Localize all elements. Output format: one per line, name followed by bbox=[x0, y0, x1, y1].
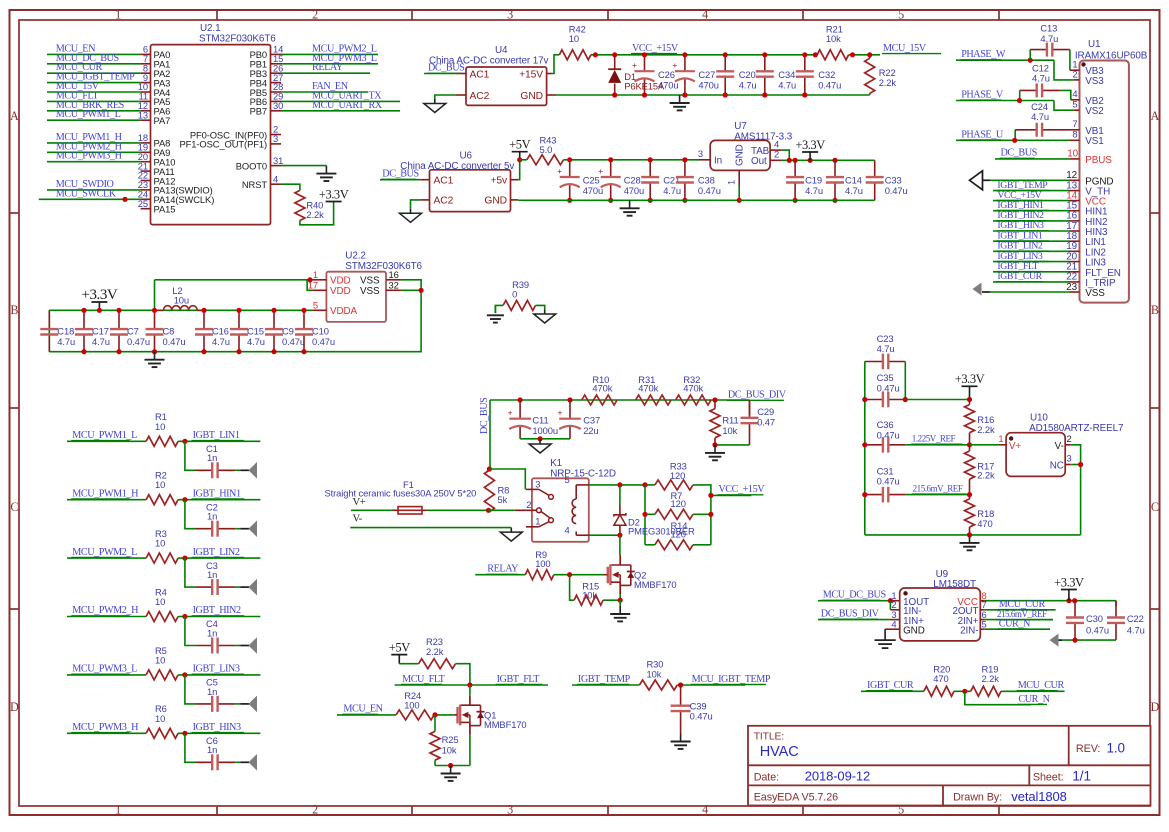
svg-text:U7: U7 bbox=[734, 121, 746, 132]
svg-text:0.47u: 0.47u bbox=[282, 336, 305, 347]
svg-text:4: 4 bbox=[891, 618, 896, 629]
svg-text:U6: U6 bbox=[460, 151, 473, 162]
svg-text:HVAC: HVAC bbox=[760, 744, 799, 760]
svg-text:PMEG3010BER: PMEG3010BER bbox=[628, 526, 695, 537]
svg-text:DC_BUS: DC_BUS bbox=[428, 63, 465, 74]
svg-text:MCU_PWM3_L: MCU_PWM3_L bbox=[72, 664, 137, 675]
svg-text:+3.3V: +3.3V bbox=[82, 287, 118, 303]
svg-text:IGBT_HIN3: IGBT_HIN3 bbox=[193, 722, 241, 733]
svg-text:4: 4 bbox=[273, 173, 278, 184]
svg-text:4.7u: 4.7u bbox=[57, 336, 75, 347]
svg-text:13: 13 bbox=[138, 109, 148, 120]
svg-text:470: 470 bbox=[977, 518, 992, 529]
svg-text:0.47: 0.47 bbox=[757, 417, 775, 428]
svg-text:AC2: AC2 bbox=[434, 196, 454, 207]
svg-text:C37: C37 bbox=[583, 415, 600, 426]
svg-text:C: C bbox=[1151, 500, 1159, 514]
svg-text:IGBT_CUR: IGBT_CUR bbox=[867, 680, 914, 691]
svg-text:+: + bbox=[632, 60, 637, 70]
svg-text:120: 120 bbox=[670, 470, 685, 481]
svg-text:AC1: AC1 bbox=[470, 69, 490, 80]
svg-text:0: 0 bbox=[512, 289, 517, 300]
svg-text:C13: C13 bbox=[1040, 23, 1057, 34]
svg-text:GND: GND bbox=[903, 625, 925, 636]
svg-text:100: 100 bbox=[535, 558, 550, 569]
svg-text:IGBT_TEMP: IGBT_TEMP bbox=[578, 674, 631, 685]
svg-text:10k: 10k bbox=[826, 33, 841, 44]
svg-text:+5v: +5v bbox=[490, 176, 508, 187]
svg-text:AC1: AC1 bbox=[434, 176, 454, 187]
svg-text:1n: 1n bbox=[207, 569, 217, 580]
svg-text:0.47u: 0.47u bbox=[127, 336, 150, 347]
svg-text:NC: NC bbox=[1050, 460, 1064, 471]
svg-text:MCU_PWM1_L: MCU_PWM1_L bbox=[56, 109, 121, 120]
svg-text:IGBT_LIN2: IGBT_LIN2 bbox=[193, 547, 240, 558]
svg-text:+15V: +15V bbox=[519, 69, 543, 80]
svg-text:120: 120 bbox=[671, 498, 686, 509]
svg-text:7: 7 bbox=[1072, 118, 1077, 129]
svg-text:1n: 1n bbox=[207, 452, 217, 463]
svg-text:C15: C15 bbox=[247, 326, 264, 337]
svg-text:10: 10 bbox=[155, 538, 165, 549]
svg-text:VDD: VDD bbox=[330, 286, 351, 297]
svg-text:4.7u: 4.7u bbox=[805, 185, 823, 196]
svg-text:Drawn By:: Drawn By: bbox=[953, 791, 1002, 803]
svg-text:4.7u: 4.7u bbox=[1040, 33, 1058, 44]
svg-text:4.7u: 4.7u bbox=[739, 79, 757, 90]
svg-text:3: 3 bbox=[535, 478, 540, 489]
svg-text:470u: 470u bbox=[583, 185, 603, 196]
svg-text:0.47u: 0.47u bbox=[312, 336, 335, 347]
svg-text:IGBT_LIN3: IGBT_LIN3 bbox=[193, 664, 240, 675]
svg-text:+: + bbox=[558, 408, 563, 418]
svg-text:VSS: VSS bbox=[360, 276, 380, 287]
svg-text:10k: 10k bbox=[647, 669, 662, 680]
svg-text:0.47u: 0.47u bbox=[698, 185, 721, 196]
svg-text:MCU_PWM2_H: MCU_PWM2_H bbox=[72, 605, 139, 616]
svg-text:U4: U4 bbox=[495, 45, 508, 56]
svg-text:3: 3 bbox=[698, 148, 703, 159]
svg-text:RELAY: RELAY bbox=[312, 62, 344, 73]
svg-text:IGBT_HIN1: IGBT_HIN1 bbox=[193, 488, 241, 499]
svg-text:10: 10 bbox=[155, 713, 165, 724]
svg-text:MCU_PWM2_L: MCU_PWM2_L bbox=[72, 547, 137, 558]
svg-text:10k: 10k bbox=[722, 425, 737, 436]
svg-text:PB7: PB7 bbox=[250, 106, 267, 117]
svg-text:2.2k: 2.2k bbox=[977, 424, 995, 435]
svg-text:4.7u: 4.7u bbox=[1127, 624, 1145, 635]
svg-text:VS1: VS1 bbox=[1085, 136, 1104, 147]
svg-text:C8: C8 bbox=[163, 326, 175, 337]
svg-text:VDD: VDD bbox=[330, 276, 351, 287]
svg-text:1: 1 bbox=[998, 433, 1003, 444]
svg-text:IGBT_LIN1: IGBT_LIN1 bbox=[193, 430, 240, 441]
svg-text:vetal1808: vetal1808 bbox=[1011, 789, 1066, 804]
svg-text:Sheet:: Sheet: bbox=[1033, 771, 1064, 783]
svg-text:NRST: NRST bbox=[242, 179, 267, 190]
svg-text:VDDA: VDDA bbox=[330, 306, 358, 317]
svg-text:10: 10 bbox=[155, 421, 165, 432]
svg-text:A: A bbox=[1151, 109, 1160, 123]
svg-text:+: + bbox=[557, 166, 562, 176]
svg-text:12: 12 bbox=[1066, 170, 1077, 181]
svg-text:GND: GND bbox=[520, 91, 543, 102]
svg-text:2.2k: 2.2k bbox=[977, 470, 995, 481]
svg-text:1/1: 1/1 bbox=[1072, 769, 1090, 784]
svg-text:IGBT_HIN2: IGBT_HIN2 bbox=[193, 605, 241, 616]
svg-text:PA7: PA7 bbox=[154, 115, 171, 126]
svg-text:0.47u: 0.47u bbox=[1086, 624, 1109, 635]
svg-text:215.6mV_REF: 215.6mV_REF bbox=[913, 483, 963, 493]
svg-text:C33: C33 bbox=[885, 175, 902, 186]
svg-text:4.7u: 4.7u bbox=[845, 185, 863, 196]
svg-text:470u: 470u bbox=[698, 79, 718, 90]
svg-text:A: A bbox=[10, 109, 19, 123]
svg-text:C14: C14 bbox=[845, 175, 862, 186]
svg-text:1: 1 bbox=[726, 180, 737, 185]
svg-text:PHASE_U: PHASE_U bbox=[961, 129, 1004, 140]
svg-text:470k: 470k bbox=[592, 382, 612, 393]
svg-text:2.2k: 2.2k bbox=[982, 673, 1000, 684]
svg-text:V+: V+ bbox=[353, 497, 366, 508]
svg-text:C19: C19 bbox=[805, 175, 822, 186]
svg-text:4.7u: 4.7u bbox=[247, 336, 265, 347]
svg-text:2: 2 bbox=[312, 8, 318, 22]
svg-text:C39: C39 bbox=[690, 700, 707, 711]
svg-text:C18: C18 bbox=[57, 326, 74, 337]
svg-text:25: 25 bbox=[138, 198, 148, 209]
svg-text:VS2: VS2 bbox=[1085, 106, 1103, 117]
svg-text:MMBF170: MMBF170 bbox=[484, 719, 527, 730]
svg-text:PHASE_V: PHASE_V bbox=[961, 90, 1004, 101]
svg-text:470: 470 bbox=[933, 673, 948, 684]
svg-text:C11: C11 bbox=[532, 415, 548, 426]
svg-text:10: 10 bbox=[1067, 148, 1078, 159]
svg-text:Straight ceramic fuses30A 250V: Straight ceramic fuses30A 250V 5*20 bbox=[325, 487, 477, 498]
svg-text:In: In bbox=[714, 156, 722, 167]
svg-text:D: D bbox=[10, 700, 19, 714]
svg-text:10k: 10k bbox=[442, 744, 457, 755]
svg-text:2: 2 bbox=[526, 499, 531, 510]
svg-text:C25: C25 bbox=[583, 175, 600, 186]
svg-text:10: 10 bbox=[155, 596, 165, 607]
svg-text:4: 4 bbox=[565, 525, 570, 536]
svg-text:EasyEDA V5.7.26: EasyEDA V5.7.26 bbox=[754, 791, 838, 803]
svg-text:5: 5 bbox=[313, 299, 318, 310]
svg-text:2IN-: 2IN- bbox=[960, 625, 978, 636]
svg-text:MCU_SWCLK: MCU_SWCLK bbox=[56, 188, 117, 199]
svg-text:C27: C27 bbox=[698, 69, 715, 80]
svg-text:4.7u: 4.7u bbox=[92, 336, 110, 347]
svg-text:MCU_FLT: MCU_FLT bbox=[402, 674, 446, 685]
svg-text:16: 16 bbox=[389, 269, 399, 280]
svg-text:2: 2 bbox=[312, 803, 318, 817]
svg-text:4.7u: 4.7u bbox=[877, 343, 895, 354]
svg-text:V-: V- bbox=[353, 514, 363, 525]
svg-text:470k: 470k bbox=[683, 382, 703, 393]
svg-text:+: + bbox=[598, 166, 603, 176]
svg-text:MCU_PWM1_L: MCU_PWM1_L bbox=[72, 430, 137, 441]
svg-text:C32: C32 bbox=[818, 69, 835, 80]
svg-text:1.225V_REF: 1.225V_REF bbox=[912, 434, 956, 444]
svg-text:+5V: +5V bbox=[509, 138, 530, 152]
svg-text:0.47u: 0.47u bbox=[877, 476, 900, 487]
svg-text:C16: C16 bbox=[212, 326, 229, 337]
svg-text:VCC_+15V: VCC_+15V bbox=[632, 43, 679, 54]
svg-text:30: 30 bbox=[273, 100, 283, 111]
svg-text:3: 3 bbox=[1067, 453, 1072, 464]
svg-text:GND: GND bbox=[484, 196, 507, 207]
svg-text:STM32F030K6T6: STM32F030K6T6 bbox=[199, 34, 276, 45]
svg-text:DC_BUS_DIV: DC_BUS_DIV bbox=[728, 390, 787, 401]
svg-text:C9: C9 bbox=[282, 326, 294, 337]
svg-text:+: + bbox=[508, 408, 513, 418]
svg-text:1: 1 bbox=[313, 269, 318, 280]
svg-text:TITLE:: TITLE: bbox=[754, 732, 784, 743]
svg-text:32: 32 bbox=[389, 279, 399, 290]
svg-text:C22: C22 bbox=[1127, 613, 1144, 624]
svg-text:5k: 5k bbox=[498, 494, 508, 505]
svg-text:3: 3 bbox=[273, 133, 278, 144]
svg-text:2018-09-12: 2018-09-12 bbox=[805, 769, 871, 784]
svg-text:C28: C28 bbox=[624, 175, 641, 186]
svg-text:C29: C29 bbox=[757, 406, 774, 417]
svg-text:K1: K1 bbox=[550, 458, 562, 469]
svg-text:3: 3 bbox=[507, 803, 513, 817]
svg-text:5.0: 5.0 bbox=[540, 144, 553, 155]
svg-text:1n: 1n bbox=[207, 627, 217, 638]
svg-text:IGBT_CUR: IGBT_CUR bbox=[997, 271, 1042, 282]
svg-text:U1: U1 bbox=[1088, 39, 1101, 50]
svg-text:R11: R11 bbox=[722, 415, 738, 426]
svg-text:IGBT_FLT: IGBT_FLT bbox=[497, 674, 541, 685]
svg-text:B: B bbox=[1151, 303, 1159, 317]
svg-text:2: 2 bbox=[1072, 68, 1077, 79]
svg-text:0.47u: 0.47u bbox=[690, 711, 713, 722]
svg-text:10u: 10u bbox=[174, 295, 189, 306]
svg-text:10: 10 bbox=[155, 654, 165, 665]
svg-text:MCU_UART_RX: MCU_UART_RX bbox=[312, 100, 383, 111]
svg-text:C10: C10 bbox=[312, 326, 329, 337]
svg-text:10: 10 bbox=[569, 33, 579, 44]
svg-text:REV:: REV: bbox=[1076, 743, 1100, 755]
svg-text:STM32F030K6T6: STM32F030K6T6 bbox=[345, 261, 422, 272]
svg-text:C17: C17 bbox=[92, 326, 109, 337]
svg-text:5: 5 bbox=[1072, 98, 1077, 109]
svg-text:2.2k: 2.2k bbox=[879, 77, 897, 88]
svg-text:0.47u: 0.47u bbox=[163, 336, 186, 347]
svg-text:4.7u: 4.7u bbox=[212, 336, 230, 347]
svg-text:CUR_N: CUR_N bbox=[999, 618, 1031, 629]
svg-text:1n: 1n bbox=[207, 511, 217, 522]
svg-text:2.2k: 2.2k bbox=[426, 646, 444, 657]
svg-text:22u: 22u bbox=[583, 425, 598, 436]
svg-text:+3.3V: +3.3V bbox=[1054, 575, 1084, 589]
svg-text:10: 10 bbox=[155, 479, 165, 490]
svg-text:V-: V- bbox=[1055, 441, 1064, 452]
svg-text:1n: 1n bbox=[207, 686, 217, 697]
svg-text:CUR_N: CUR_N bbox=[1018, 694, 1050, 705]
svg-text:2.2k: 2.2k bbox=[306, 209, 324, 220]
svg-text:VSS: VSS bbox=[360, 286, 380, 297]
svg-text:GND: GND bbox=[735, 144, 746, 166]
svg-text:C38: C38 bbox=[698, 175, 715, 186]
svg-text:4.7u: 4.7u bbox=[663, 185, 681, 196]
svg-text:MMBF170: MMBF170 bbox=[634, 579, 677, 590]
svg-text:C34: C34 bbox=[778, 69, 795, 80]
svg-text:U10: U10 bbox=[1030, 413, 1048, 424]
svg-text:4.7u: 4.7u bbox=[1031, 111, 1049, 122]
svg-text:C30: C30 bbox=[1086, 613, 1103, 624]
svg-text:PF1-OSC_OUT(PF1): PF1-OSC_OUT(PF1) bbox=[180, 139, 267, 150]
svg-text:0.47u: 0.47u bbox=[818, 79, 841, 90]
svg-text:0.47u: 0.47u bbox=[885, 185, 908, 196]
svg-text:8: 8 bbox=[1072, 128, 1077, 139]
svg-text:MCU_CUR: MCU_CUR bbox=[1018, 680, 1065, 691]
svg-text:C20: C20 bbox=[739, 69, 756, 80]
svg-text:1: 1 bbox=[535, 515, 540, 526]
svg-text:DC_BUS: DC_BUS bbox=[1001, 148, 1038, 159]
svg-text:MCU_DC_BUS: MCU_DC_BUS bbox=[823, 590, 887, 601]
svg-text:VS3: VS3 bbox=[1085, 76, 1104, 87]
svg-text:2: 2 bbox=[1067, 433, 1072, 444]
svg-text:1000u: 1000u bbox=[532, 425, 558, 436]
svg-text:V+: V+ bbox=[1009, 441, 1021, 452]
svg-text:1: 1 bbox=[115, 803, 121, 817]
svg-text:MCU_PWM3_H: MCU_PWM3_H bbox=[56, 151, 123, 162]
svg-text:+5V: +5V bbox=[389, 640, 410, 654]
svg-text:MCU_PWM1_H: MCU_PWM1_H bbox=[72, 488, 139, 499]
svg-text:AC2: AC2 bbox=[470, 91, 490, 102]
svg-text:31: 31 bbox=[273, 155, 283, 166]
svg-text:+3.3V: +3.3V bbox=[795, 138, 825, 152]
svg-text:5: 5 bbox=[898, 8, 904, 22]
svg-text:5: 5 bbox=[565, 474, 570, 485]
svg-text:MCU_IGBT_TEMP: MCU_IGBT_TEMP bbox=[692, 674, 771, 685]
svg-text:1n: 1n bbox=[207, 744, 217, 755]
svg-text:B: B bbox=[10, 303, 18, 317]
svg-text:MCU_15V: MCU_15V bbox=[883, 43, 927, 54]
svg-text:D: D bbox=[1151, 700, 1160, 714]
svg-text:4.7u: 4.7u bbox=[1032, 72, 1050, 83]
svg-text:PBUS: PBUS bbox=[1085, 155, 1112, 166]
svg-text:Out: Out bbox=[751, 156, 767, 167]
svg-text:VSS: VSS bbox=[1085, 288, 1105, 299]
svg-text:470u: 470u bbox=[624, 185, 644, 196]
svg-text:MCU_PWM3_H: MCU_PWM3_H bbox=[72, 722, 139, 733]
svg-text:MCU_EN: MCU_EN bbox=[343, 704, 383, 715]
svg-text:VCC_+15V: VCC_+15V bbox=[718, 484, 765, 495]
svg-text:4: 4 bbox=[702, 8, 708, 22]
svg-text:4.7u: 4.7u bbox=[778, 79, 796, 90]
svg-text:+3.3V: +3.3V bbox=[955, 372, 985, 386]
svg-text:C7: C7 bbox=[127, 326, 139, 337]
svg-text:DC_BUS: DC_BUS bbox=[382, 169, 419, 180]
svg-text:23: 23 bbox=[1066, 282, 1077, 293]
svg-text:4: 4 bbox=[702, 803, 708, 817]
svg-text:PHASE_W: PHASE_W bbox=[961, 49, 1006, 60]
svg-text:1: 1 bbox=[115, 8, 121, 22]
svg-text:C: C bbox=[10, 500, 18, 514]
svg-text:BOOT0: BOOT0 bbox=[236, 160, 267, 171]
svg-text:C26: C26 bbox=[658, 69, 675, 80]
svg-text:RELAY: RELAY bbox=[487, 564, 519, 575]
svg-text:DC_BUS: DC_BUS bbox=[479, 397, 490, 434]
svg-text:470k: 470k bbox=[638, 382, 658, 393]
svg-text:1.0: 1.0 bbox=[1107, 740, 1125, 755]
svg-text:+: + bbox=[672, 60, 677, 70]
svg-text:PA15: PA15 bbox=[154, 204, 176, 215]
svg-text:U2.1: U2.1 bbox=[200, 23, 221, 34]
svg-text:3: 3 bbox=[507, 8, 513, 22]
svg-text:U2.2: U2.2 bbox=[345, 251, 365, 262]
svg-text:Date:: Date: bbox=[754, 771, 779, 783]
svg-text:DC_BUS_DIV: DC_BUS_DIV bbox=[821, 609, 880, 620]
svg-text:2: 2 bbox=[774, 149, 779, 160]
svg-text:+3.3V: +3.3V bbox=[319, 187, 349, 201]
